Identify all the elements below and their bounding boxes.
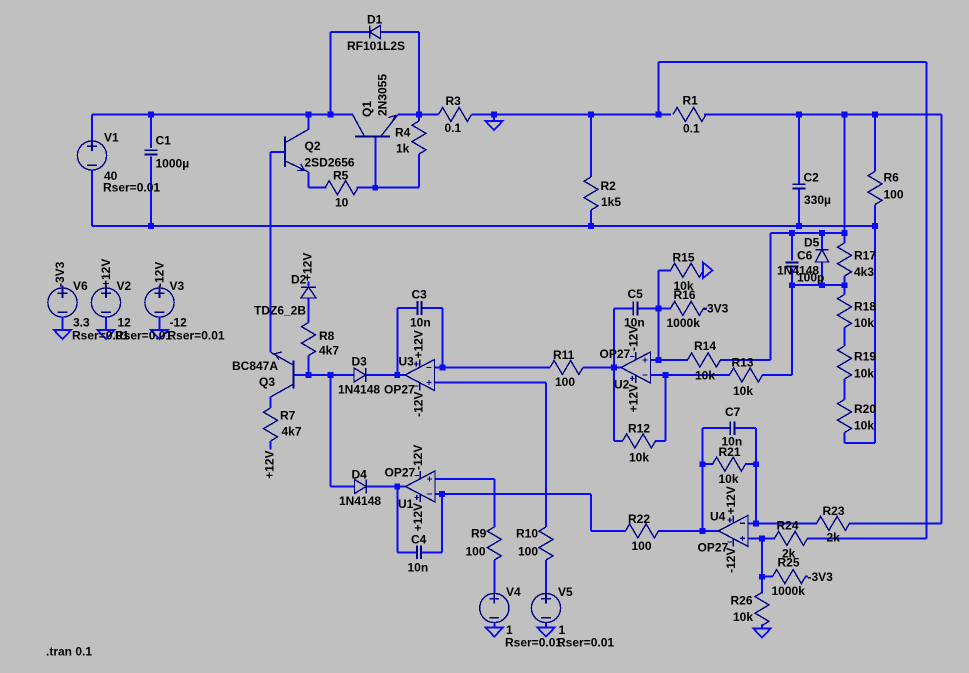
svg-text:1N4148: 1N4148 [339,494,381,508]
svg-text:V1: V1 [104,130,119,144]
svg-text:+12V: +12V [263,451,277,479]
svg-text:+12V: +12V [627,384,641,412]
svg-text:R24: R24 [777,518,799,532]
svg-text:R17: R17 [854,248,876,262]
svg-text:+12V: +12V [411,503,425,531]
svg-text:-12V: -12V [411,392,425,417]
svg-text:R7: R7 [280,408,296,422]
svg-text:R14: R14 [694,339,716,353]
svg-text:R22: R22 [628,512,650,526]
svg-text:R6: R6 [884,170,900,184]
svg-text:C4: C4 [411,532,427,546]
svg-text:R8: R8 [319,329,335,343]
svg-text:100: 100 [632,539,652,553]
svg-text:R3: R3 [446,94,462,108]
svg-text:R26: R26 [731,593,753,607]
svg-text:4k7: 4k7 [282,424,302,438]
svg-text:V4: V4 [506,585,521,599]
svg-text:D5: D5 [804,235,820,249]
svg-text:R23: R23 [823,504,845,518]
svg-text:Rser=0.01: Rser=0.01 [103,180,160,194]
svg-text:Q3: Q3 [259,375,275,389]
svg-text:C7: C7 [725,405,741,419]
svg-text:10k: 10k [733,384,753,398]
svg-text:12: 12 [118,315,132,329]
svg-text:R5: R5 [333,168,349,182]
svg-text:330µ: 330µ [804,193,831,207]
svg-text:1k5: 1k5 [601,195,621,209]
svg-text:V5: V5 [558,585,573,599]
svg-text:+12V: +12V [411,330,425,358]
svg-text:R19: R19 [854,349,876,363]
svg-text:-12V: -12V [411,445,425,470]
svg-text:3.3: 3.3 [73,315,90,329]
svg-text:10k: 10k [719,472,739,486]
svg-text:100: 100 [518,544,538,558]
svg-text:10: 10 [335,195,349,209]
svg-text:10k: 10k [854,418,874,432]
svg-text:V6: V6 [73,279,88,293]
svg-text:D3: D3 [352,354,368,368]
svg-text:C3: C3 [412,287,428,301]
svg-text:0.1: 0.1 [445,121,462,135]
svg-text:10n: 10n [410,315,431,329]
svg-text:R10: R10 [516,526,538,540]
svg-text:R11: R11 [553,348,575,362]
svg-text:1N4148: 1N4148 [338,382,380,396]
svg-text:R9: R9 [471,526,487,540]
svg-text:Rser=0.01: Rser=0.01 [505,635,562,649]
svg-text:1000k: 1000k [667,316,701,330]
svg-text:R18: R18 [854,299,876,313]
svg-text:C2: C2 [804,170,820,184]
svg-text:-12: -12 [170,315,188,329]
svg-text:D4: D4 [352,467,368,481]
svg-text:100: 100 [466,544,486,558]
svg-text:4k7: 4k7 [319,343,339,357]
svg-text:V3: V3 [170,279,185,293]
svg-text:C1: C1 [156,133,172,147]
svg-text:R12: R12 [628,421,650,435]
svg-text:10n: 10n [408,560,429,574]
svg-text:100: 100 [555,375,575,389]
svg-text:R25: R25 [778,555,800,569]
svg-text:R4: R4 [395,125,411,139]
svg-text:-12V: -12V [724,548,738,573]
svg-text:100p: 100p [797,270,824,284]
svg-text:-3V3: -3V3 [53,261,67,287]
svg-text:2SD2656: 2SD2656 [305,155,355,169]
svg-text:R20: R20 [854,402,876,416]
svg-text:D1: D1 [367,12,383,26]
svg-text:100: 100 [884,187,904,201]
svg-text:.tran 0.1: .tran 0.1 [46,644,92,658]
svg-text:10k: 10k [695,368,715,382]
svg-text:10k: 10k [854,316,874,330]
svg-text:R2: R2 [601,179,617,193]
svg-text:10k: 10k [733,610,753,624]
svg-text:+12V: +12V [724,486,738,514]
svg-text:-12V: -12V [627,326,641,351]
svg-text:-3V3: -3V3 [703,301,729,315]
svg-text:2k: 2k [827,530,841,544]
svg-text:V2: V2 [117,279,132,293]
svg-text:R1: R1 [683,93,699,107]
svg-text:+12V: +12V [300,253,314,281]
svg-text:R15: R15 [673,250,695,264]
svg-text:4k3: 4k3 [854,265,874,279]
svg-text:OP27: OP27 [384,382,415,396]
svg-text:Q1: Q1 [360,101,374,117]
svg-text:2N3055: 2N3055 [376,74,390,116]
svg-text:-12V: -12V [152,262,166,287]
svg-text:R16: R16 [674,288,696,302]
svg-text:-3V3: -3V3 [808,570,834,584]
svg-text:1000k: 1000k [772,584,806,598]
svg-text:Rser=0.01: Rser=0.01 [168,328,225,342]
svg-text:+12V: +12V [99,259,113,287]
svg-text:C6: C6 [797,248,813,262]
svg-text:BC847A: BC847A [232,359,278,373]
svg-text:Q2: Q2 [305,139,321,153]
svg-text:Rser=0.01: Rser=0.01 [115,328,172,342]
svg-text:RF101L2S: RF101L2S [347,39,405,53]
svg-text:C5: C5 [628,287,644,301]
svg-text:0.1: 0.1 [683,121,700,135]
svg-text:10k: 10k [629,450,649,464]
svg-text:R13: R13 [732,355,754,369]
svg-text:R21: R21 [719,445,741,459]
svg-text:1000µ: 1000µ [156,156,190,170]
svg-text:10k: 10k [854,366,874,380]
svg-text:Rser=0.01: Rser=0.01 [557,635,614,649]
svg-text:1k: 1k [396,141,410,155]
svg-text:TDZ6_2B: TDZ6_2B [254,303,306,317]
